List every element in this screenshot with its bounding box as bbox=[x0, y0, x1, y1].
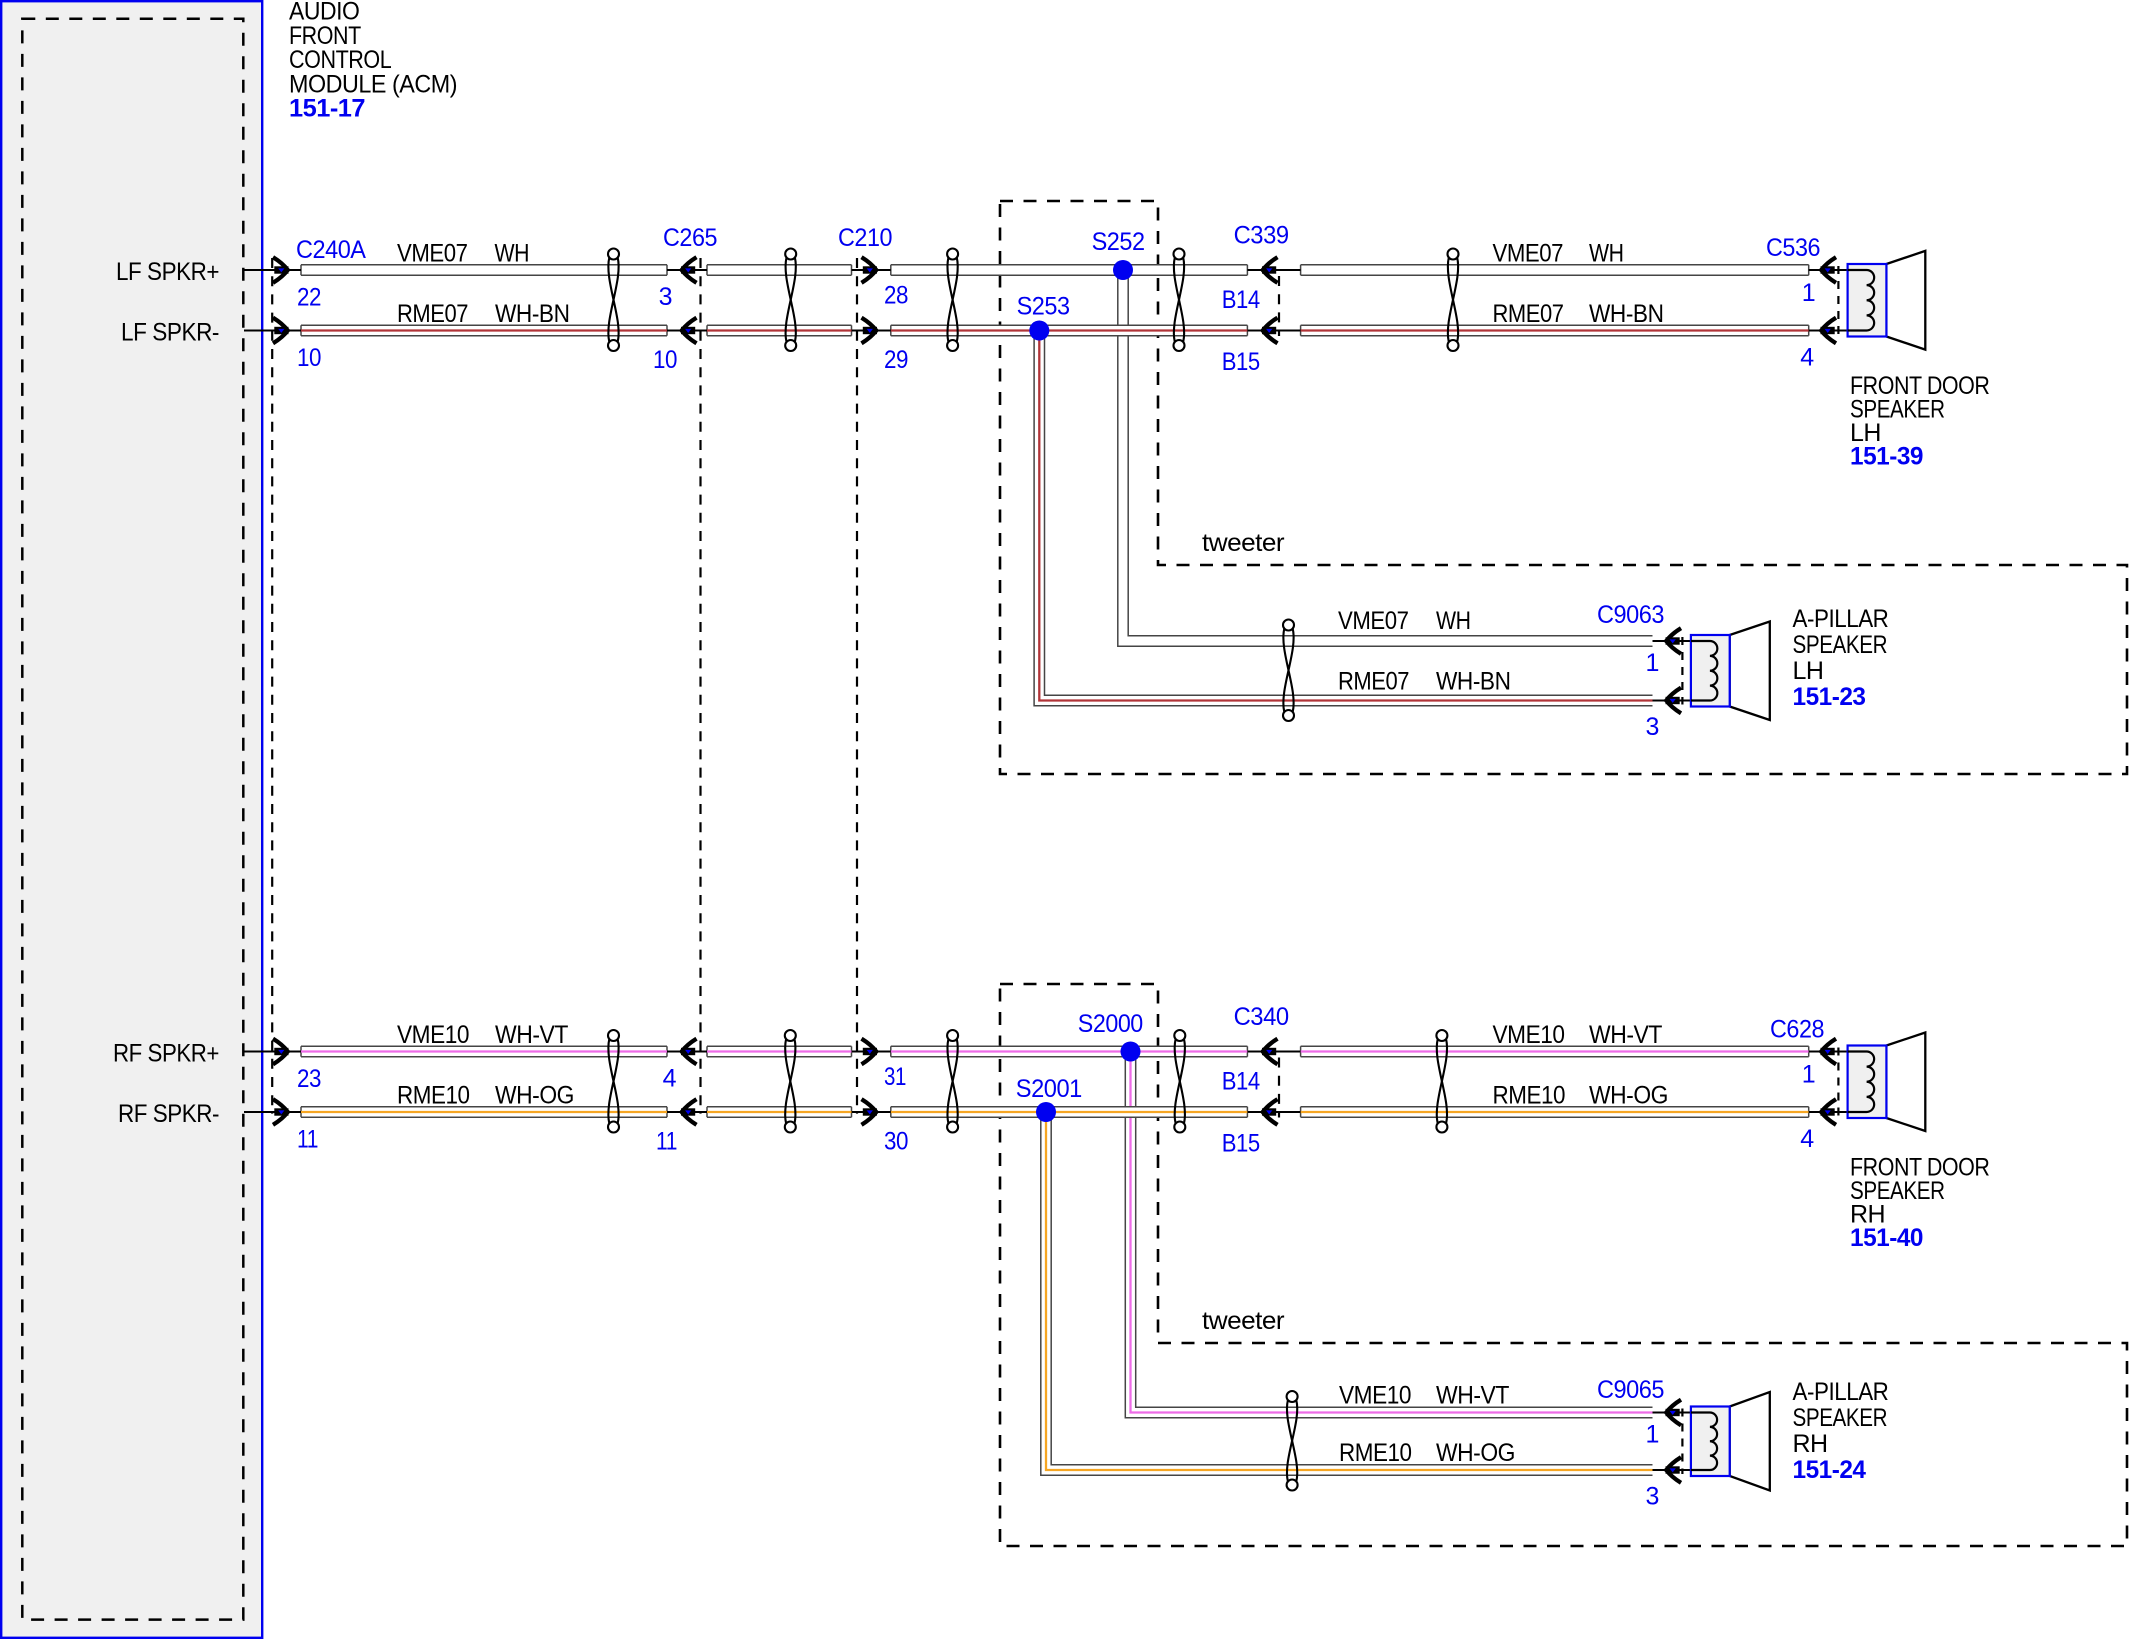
module ACM inner dashed border bbox=[22, 19, 243, 1620]
connector C9065 dashed boundary bbox=[1681, 1409, 1683, 1475]
speaker FRONT DOOR LH bbox=[1886, 251, 1925, 350]
svg-text:WH-VT: WH-VT bbox=[1589, 1021, 1662, 1049]
twisted pair symbol A-pillar RH bbox=[1287, 1391, 1298, 1402]
svg-text:3: 3 bbox=[1646, 713, 1659, 741]
svg-text:C339: C339 bbox=[1234, 222, 1289, 250]
arrow at C9063/C9065 bbox=[1666, 1400, 1681, 1426]
wire VME07 WH segment C265-C210 bbox=[707, 265, 852, 275]
svg-text:tweeter: tweeter bbox=[1202, 529, 1284, 557]
arrow at C265 bbox=[682, 1099, 697, 1125]
splice S2000 bbox=[1121, 1042, 1141, 1062]
wire RME10 WH-OG segment C210-C340 bbox=[891, 1107, 1248, 1117]
svg-text:151-39: 151-39 bbox=[1850, 443, 1923, 471]
wire RME10 WH-OG branch S2001 to C9065 bbox=[1041, 1112, 1653, 1475]
svg-text:23: 23 bbox=[297, 1065, 321, 1093]
speaker A-PILLAR LH bbox=[1730, 622, 1770, 721]
speaker A-PILLAR RH bbox=[1730, 1392, 1770, 1491]
twisted pair symbol LF 4 bbox=[1174, 249, 1185, 260]
twisted pair symbol LF 3 bbox=[947, 249, 958, 260]
svg-text:30: 30 bbox=[884, 1128, 908, 1156]
wire VME07 WH segment C210-C339 bbox=[891, 265, 1248, 275]
wire lead at C210 bbox=[852, 329, 891, 331]
arrow at C339/C340 bbox=[1263, 257, 1278, 283]
arrow at C265 bbox=[682, 318, 697, 344]
svg-text:WH-BN: WH-BN bbox=[1436, 668, 1511, 696]
svg-text:11: 11 bbox=[656, 1128, 677, 1156]
arrow at C339/C340 bbox=[1263, 318, 1278, 344]
svg-text:151-17: 151-17 bbox=[289, 95, 365, 123]
svg-text:151-23: 151-23 bbox=[1793, 683, 1866, 711]
wire lead at C265 bbox=[667, 329, 707, 331]
arrow out of module bbox=[273, 1039, 288, 1065]
arrow at C339/C340 bbox=[1263, 1099, 1278, 1125]
wire lead at C265 bbox=[667, 269, 707, 271]
arrow at C265 bbox=[682, 1039, 697, 1065]
svg-text:WH-OG: WH-OG bbox=[1589, 1082, 1668, 1110]
arrow at C210 bbox=[862, 1039, 877, 1065]
wire lead at module pin bbox=[244, 269, 301, 271]
svg-text:WH-BN: WH-BN bbox=[495, 300, 570, 328]
svg-text:LF SPKR+: LF SPKR+ bbox=[116, 258, 219, 286]
arrow out of module bbox=[273, 318, 288, 344]
wire lead at module pin bbox=[244, 1111, 301, 1113]
svg-text:VME10: VME10 bbox=[397, 1021, 469, 1049]
wire lead at C210 bbox=[852, 1050, 891, 1052]
svg-text:10: 10 bbox=[297, 344, 321, 372]
svg-text:C240A: C240A bbox=[296, 236, 366, 264]
wire lead at C265 bbox=[667, 1111, 707, 1113]
wire RME10 WH-OG segment C240A-C265 bbox=[301, 1107, 667, 1117]
module ACM outer box bbox=[1, 1, 262, 1638]
twisted pair symbol RF 3 bbox=[947, 1030, 958, 1041]
wire lead at C339/C340 bbox=[1247, 1111, 1300, 1113]
twisted pair symbol LF 1 bbox=[608, 249, 619, 260]
svg-text:RME10: RME10 bbox=[1493, 1082, 1566, 1110]
arrow at C536/C628 bbox=[1821, 1099, 1836, 1125]
wire lead at C265 bbox=[667, 1050, 707, 1052]
svg-text:151-24: 151-24 bbox=[1793, 1456, 1867, 1484]
svg-text:VME07: VME07 bbox=[397, 240, 468, 268]
svg-text:VME10: VME10 bbox=[1493, 1021, 1565, 1049]
svg-text:S253: S253 bbox=[1017, 293, 1070, 321]
wire lead at C536/C628 bbox=[1809, 1111, 1848, 1113]
wire RME07 WH-BN segment C265-C210 bbox=[707, 325, 852, 335]
arrow out of module bbox=[273, 1099, 288, 1125]
wire lead at C210 bbox=[852, 1111, 891, 1113]
wire RME07 WH-BN segment C339-C536 bbox=[1301, 325, 1809, 335]
svg-text:C210: C210 bbox=[838, 224, 892, 252]
connector C536 dashed boundary bbox=[1837, 266, 1839, 335]
splice S252 bbox=[1113, 260, 1133, 280]
svg-text:RH: RH bbox=[1793, 1430, 1828, 1458]
svg-text:A-PILLAR: A-PILLAR bbox=[1793, 1378, 1889, 1406]
svg-text:S252: S252 bbox=[1092, 228, 1145, 256]
connector C340 dashed boundary bbox=[1278, 1058, 1280, 1118]
tweeter dashed boundary box RH bbox=[1000, 984, 2127, 1546]
wire lead at C210 bbox=[852, 269, 891, 271]
svg-text:B15: B15 bbox=[1222, 1130, 1260, 1158]
svg-text:3: 3 bbox=[1646, 1483, 1659, 1511]
wire lead at C9063/C9065 bbox=[1653, 699, 1691, 701]
svg-text:4: 4 bbox=[663, 1065, 677, 1093]
svg-text:B15: B15 bbox=[1222, 348, 1260, 376]
svg-text:C9063: C9063 bbox=[1597, 601, 1664, 629]
svg-text:WH: WH bbox=[1589, 240, 1624, 268]
svg-text:28: 28 bbox=[884, 282, 908, 310]
wire RME10 WH-OG segment C265-C210 bbox=[707, 1107, 852, 1117]
svg-text:S2001: S2001 bbox=[1016, 1075, 1082, 1103]
svg-text:4: 4 bbox=[1800, 1125, 1814, 1153]
twisted pair symbol A-pillar LH bbox=[1283, 620, 1294, 631]
svg-text:SPEAKER: SPEAKER bbox=[1793, 1404, 1888, 1432]
wire lead at module pin bbox=[244, 329, 301, 331]
connector C210 dashed boundary bbox=[856, 258, 858, 1114]
wire lead at C536/C628 bbox=[1809, 329, 1848, 331]
wire VME10 WH-VT segment C265-C210 bbox=[707, 1046, 852, 1056]
svg-text:WH-VT: WH-VT bbox=[495, 1021, 568, 1049]
connector C628 dashed boundary bbox=[1837, 1048, 1839, 1117]
wire lead at C9063/C9065 bbox=[1653, 640, 1691, 642]
arrow at C210 bbox=[862, 1099, 877, 1125]
svg-text:22: 22 bbox=[297, 284, 321, 312]
svg-text:WH-BN: WH-BN bbox=[1589, 300, 1664, 328]
wire lead at C339/C340 bbox=[1247, 329, 1300, 331]
svg-text:151-40: 151-40 bbox=[1850, 1224, 1923, 1252]
svg-text:C536: C536 bbox=[1766, 234, 1820, 262]
svg-text:WH-OG: WH-OG bbox=[495, 1082, 574, 1110]
arrow at C210 bbox=[862, 257, 877, 283]
twisted pair symbol LF 5 bbox=[1448, 249, 1459, 260]
wire lead at C9063/C9065 bbox=[1653, 1469, 1691, 1471]
svg-text:1: 1 bbox=[1646, 1421, 1659, 1449]
arrow at C265 bbox=[682, 257, 697, 283]
svg-text:RME07: RME07 bbox=[1493, 300, 1564, 328]
arrow at C9063/C9065 bbox=[1666, 628, 1681, 654]
svg-text:VME07: VME07 bbox=[1493, 240, 1564, 268]
svg-text:RME10: RME10 bbox=[1339, 1439, 1412, 1467]
wire RME07 WH-BN segment C210-C339 bbox=[891, 325, 1248, 335]
twisted pair symbol RF 4 bbox=[1174, 1030, 1185, 1041]
connector C240A dashed boundary bbox=[271, 258, 273, 1114]
twisted pair symbol RF 5 bbox=[1436, 1030, 1447, 1041]
svg-text:C340: C340 bbox=[1234, 1003, 1289, 1031]
wire lead at module pin bbox=[244, 1050, 301, 1052]
svg-text:WH: WH bbox=[1436, 607, 1471, 635]
svg-text:A-PILLAR: A-PILLAR bbox=[1793, 605, 1889, 633]
wire lead at C339/C340 bbox=[1247, 1050, 1300, 1052]
svg-text:RME10: RME10 bbox=[397, 1082, 470, 1110]
wire VME10 WH-VT segment C210-C340 bbox=[891, 1046, 1248, 1056]
svg-text:VME07: VME07 bbox=[1338, 607, 1409, 635]
arrow at C210 bbox=[862, 318, 877, 344]
twisted pair symbol RF 2 bbox=[785, 1030, 796, 1041]
wire VME07 WH segment C339-C536 bbox=[1301, 265, 1809, 275]
svg-text:tweeter: tweeter bbox=[1202, 1307, 1284, 1335]
svg-text:VME10: VME10 bbox=[1339, 1382, 1411, 1410]
wire VME10 WH-VT branch S2000 to C9065 bbox=[1125, 1052, 1652, 1418]
wire VME07 WH segment C240A-C265 bbox=[301, 265, 667, 275]
wire VME10 WH-VT segment C340-C628 bbox=[1301, 1046, 1809, 1056]
wire RME07 WH-BN segment C240A-C265 bbox=[301, 325, 667, 335]
twisted pair symbol LF 2 bbox=[785, 249, 796, 260]
svg-text:RF SPKR-: RF SPKR- bbox=[118, 1100, 219, 1128]
svg-text:31: 31 bbox=[884, 1063, 906, 1091]
twisted pair symbol RF 1 bbox=[608, 1030, 619, 1041]
wire lead at C536/C628 bbox=[1809, 269, 1848, 271]
svg-text:3: 3 bbox=[659, 283, 672, 311]
arrow at C536/C628 bbox=[1821, 1039, 1836, 1065]
wire VME10 WH-VT segment C240A-C265 bbox=[301, 1046, 667, 1056]
arrow at C536/C628 bbox=[1821, 257, 1836, 283]
svg-text:C9065: C9065 bbox=[1597, 1376, 1664, 1404]
arrow out of module bbox=[273, 257, 288, 283]
svg-text:RME07: RME07 bbox=[397, 300, 468, 328]
svg-text:C628: C628 bbox=[1770, 1016, 1824, 1044]
svg-text:29: 29 bbox=[884, 346, 908, 374]
wire lead at C536/C628 bbox=[1809, 1050, 1848, 1052]
speaker FRONT DOOR RH bbox=[1886, 1033, 1925, 1132]
svg-text:LF SPKR-: LF SPKR- bbox=[121, 319, 219, 347]
svg-text:WH-OG: WH-OG bbox=[1436, 1439, 1515, 1467]
connector C339 dashed boundary bbox=[1278, 276, 1280, 336]
svg-text:S2000: S2000 bbox=[1078, 1010, 1143, 1038]
svg-text:11: 11 bbox=[297, 1126, 318, 1154]
arrow at C536/C628 bbox=[1821, 318, 1836, 344]
wire VME07 WH branch S252 to C9063 bbox=[1118, 270, 1653, 646]
wire lead at C339/C340 bbox=[1247, 269, 1300, 271]
svg-text:1: 1 bbox=[1646, 649, 1659, 677]
svg-text:RME07: RME07 bbox=[1338, 668, 1409, 696]
wire RME10 WH-OG segment C340-C628 bbox=[1301, 1107, 1809, 1117]
svg-text:C265: C265 bbox=[663, 224, 717, 252]
svg-text:B14: B14 bbox=[1222, 1068, 1261, 1096]
tweeter dashed boundary box LH bbox=[1000, 201, 2127, 774]
svg-text:10: 10 bbox=[653, 346, 677, 374]
svg-text:RF SPKR+: RF SPKR+ bbox=[113, 1040, 219, 1068]
arrow at C9063/C9065 bbox=[1666, 1457, 1681, 1483]
splice S2001 bbox=[1036, 1102, 1056, 1122]
arrow at C9063/C9065 bbox=[1666, 688, 1681, 714]
arrow at C339/C340 bbox=[1263, 1039, 1278, 1065]
svg-text:B14: B14 bbox=[1222, 286, 1261, 314]
svg-text:WH-VT: WH-VT bbox=[1436, 1382, 1509, 1410]
svg-text:LH: LH bbox=[1793, 657, 1824, 685]
svg-text:4: 4 bbox=[1800, 344, 1814, 372]
connector C265 dashed boundary bbox=[699, 258, 701, 1114]
svg-text:1: 1 bbox=[1802, 1061, 1815, 1089]
connector C9063 dashed boundary bbox=[1681, 637, 1683, 705]
wire RME07 WH-BN branch S253 to C9063 bbox=[1034, 331, 1652, 706]
svg-text:1: 1 bbox=[1802, 279, 1815, 307]
svg-text:WH: WH bbox=[495, 240, 530, 268]
svg-text:SPEAKER: SPEAKER bbox=[1793, 631, 1888, 659]
splice S253 bbox=[1029, 321, 1049, 341]
wire lead at C9063/C9065 bbox=[1653, 1411, 1691, 1413]
